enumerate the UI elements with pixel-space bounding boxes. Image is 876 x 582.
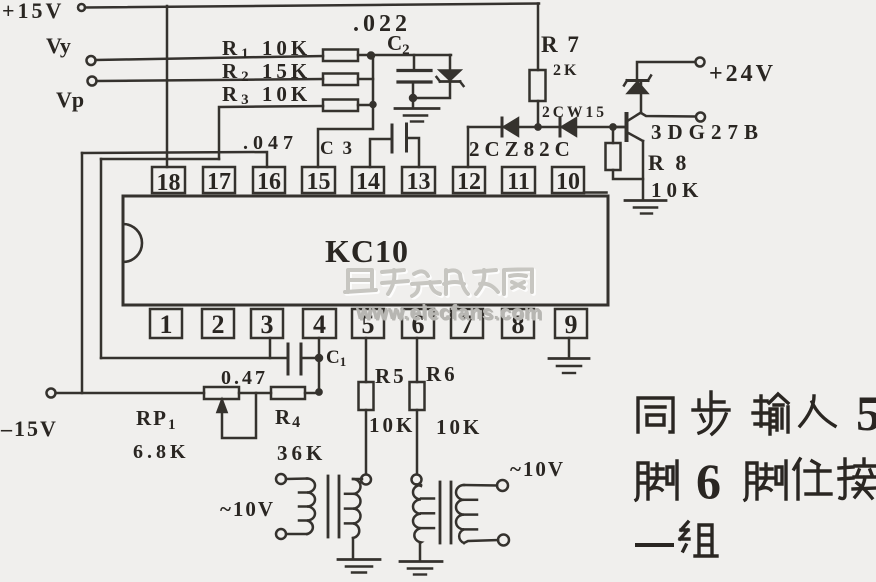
svg-text:15: 15 xyxy=(307,169,331,195)
wire R3 left lead down xyxy=(219,106,323,159)
ground below C2 xyxy=(395,109,439,122)
char ren xyxy=(794,459,831,499)
wire Vp to R2 xyxy=(97,79,324,81)
char bu xyxy=(693,392,729,434)
wire collector to output terminal xyxy=(641,113,695,117)
wire pin 12 riser xyxy=(467,127,470,167)
char zu xyxy=(680,522,717,556)
capacitor C1 xyxy=(288,344,322,374)
diode 2CW15 xyxy=(560,118,576,136)
pin 16 xyxy=(253,167,285,193)
RP1 wiper arrow xyxy=(218,393,257,438)
svg-text:16: 16 xyxy=(257,169,281,195)
char jiao 2 xyxy=(745,461,786,500)
wire Vy to R1 xyxy=(96,56,324,60)
svg-text:–15V: –15V xyxy=(0,416,58,441)
svg-text:R4: R4 xyxy=(275,405,302,431)
diode at collector xyxy=(624,76,651,94)
wire R5 to T1 secondary xyxy=(361,475,371,485)
svg-text:10K: 10K xyxy=(436,415,482,439)
pin numbers bottom xyxy=(160,310,578,339)
pin 8 xyxy=(502,309,534,338)
transformer T1 secondary winding xyxy=(345,479,362,559)
transformer T1 primary terminal top xyxy=(276,474,286,484)
pin 3 xyxy=(251,309,283,338)
op-amp IC KC10 body xyxy=(123,196,608,305)
pin 7 xyxy=(451,309,483,338)
svg-text:3: 3 xyxy=(261,310,274,339)
svg-text:13: 13 xyxy=(407,169,431,195)
svg-text:1: 1 xyxy=(160,310,173,339)
svg-text:18: 18 xyxy=(157,170,181,196)
transformer T2 secondary terminal top xyxy=(497,480,508,491)
svg-text:~10V: ~10V xyxy=(220,497,275,521)
ground T2 primary xyxy=(400,562,442,575)
watermark url xyxy=(355,302,544,326)
transformer T2 core xyxy=(440,482,451,543)
resistor R5 xyxy=(359,382,374,474)
char ru xyxy=(800,396,835,426)
svg-text:+15V: +15V xyxy=(2,0,64,23)
pin 6 xyxy=(402,309,434,338)
pin 10 xyxy=(552,167,584,193)
char jie xyxy=(839,459,876,499)
node A junction dot xyxy=(368,53,374,59)
resistor R4 xyxy=(271,387,319,399)
transformer T2 primary terminal xyxy=(412,475,422,485)
wire -15V to pin 16 xyxy=(82,152,267,393)
pin 11 xyxy=(502,167,535,193)
svg-text:2: 2 xyxy=(212,310,225,339)
svg-text:0.47: 0.47 xyxy=(221,367,268,389)
resistor R7 xyxy=(530,4,546,130)
svg-text:+24V: +24V xyxy=(709,61,776,87)
svg-text:14: 14 xyxy=(356,169,380,195)
wire to +24V xyxy=(637,62,695,80)
wire pin 3 horizontal xyxy=(101,338,288,358)
svg-text:36K: 36K xyxy=(277,441,326,465)
svg-text:KC10: KC10 xyxy=(325,233,409,269)
svg-text:10: 10 xyxy=(556,169,580,195)
wire bus node A to pin 15 xyxy=(318,55,376,167)
annotation Chinese text xyxy=(636,385,876,556)
wire emitter down xyxy=(642,141,645,200)
junction dot C2 bottom xyxy=(410,95,416,101)
resistor R3 xyxy=(323,100,373,112)
transformer T1 primary terminal bottom xyxy=(276,529,286,539)
pin 12 xyxy=(453,167,485,193)
char tong xyxy=(638,398,673,432)
ground T1 secondary xyxy=(338,560,380,573)
wire -15V to RP1 xyxy=(56,392,205,395)
pin 13 xyxy=(402,167,435,193)
wire diode row xyxy=(468,126,626,129)
svg-text:9: 9 xyxy=(565,310,578,339)
wire pin 4 down to R4 xyxy=(316,338,321,395)
zener diode beside C2 xyxy=(415,55,464,98)
digit 6 annotation xyxy=(696,453,721,509)
svg-text:6: 6 xyxy=(696,453,721,509)
wire collector up xyxy=(640,81,643,113)
wire pin 5 to R5 xyxy=(365,338,368,382)
svg-text:4: 4 xyxy=(313,310,326,339)
transformer T2 secondary terminal bottom xyxy=(498,535,509,546)
wire +15V rail xyxy=(85,4,539,8)
svg-text:~10V: ~10V xyxy=(510,457,565,481)
terminal Vy xyxy=(87,56,96,65)
resistor R1 xyxy=(323,50,368,62)
svg-text:R6: R6 xyxy=(426,362,458,386)
transistor Q1 3DG27B xyxy=(614,113,643,142)
pin 9 xyxy=(555,309,587,338)
svg-text:C 3: C 3 xyxy=(320,138,354,159)
diode 2CZ82C xyxy=(502,118,518,136)
wire +15V to pin 18 xyxy=(166,6,169,167)
transformer T1 core xyxy=(328,476,339,537)
char yi xyxy=(637,543,672,547)
potentiometer RP1 xyxy=(204,387,271,399)
IC notch xyxy=(123,224,142,262)
svg-text:www.elecfans.com: www.elecfans.com xyxy=(355,302,542,324)
transformer T2 secondary winding xyxy=(456,485,498,543)
svg-text:Vy: Vy xyxy=(46,33,71,58)
svg-text:C1: C1 xyxy=(326,347,346,369)
terminal +15V xyxy=(78,4,85,11)
terminal collector output xyxy=(696,113,705,122)
terminal Vp xyxy=(88,77,97,86)
resistor R2 xyxy=(323,74,373,86)
terminal +24V xyxy=(696,58,705,67)
pin 17 xyxy=(203,167,235,193)
svg-text:.047: .047 xyxy=(243,132,298,154)
svg-text:10K: 10K xyxy=(369,413,415,437)
svg-text:RP1: RP1 xyxy=(136,406,178,433)
resistor R6 xyxy=(410,382,425,474)
ground emitter xyxy=(625,201,666,214)
svg-text:.022: .022 xyxy=(353,11,411,37)
svg-text:6.8K: 6.8K xyxy=(133,441,190,463)
svg-text:17: 17 xyxy=(207,169,231,195)
transformer T1 primary winding xyxy=(286,479,315,535)
svg-text:R 7: R 7 xyxy=(541,32,581,57)
ground pin 9 xyxy=(549,359,589,374)
char jiao 1 xyxy=(636,461,677,500)
pin 18 xyxy=(152,167,185,193)
pin 4 xyxy=(303,309,336,338)
transformer T2 primary winding xyxy=(413,485,434,562)
svg-text:2CZ82C: 2CZ82C xyxy=(469,137,575,161)
resistor R8 xyxy=(606,124,644,179)
svg-text:10K: 10K xyxy=(651,178,703,202)
digit 5 annotation xyxy=(856,385,876,441)
char shu xyxy=(753,394,788,434)
pin 1 xyxy=(150,309,182,338)
svg-text:2K: 2K xyxy=(553,62,579,79)
svg-text:R3 10K: R3 10K xyxy=(222,82,311,108)
wire node A to C2 and zener xyxy=(371,54,451,57)
svg-text:5: 5 xyxy=(856,385,876,441)
svg-text:2CW15: 2CW15 xyxy=(542,104,607,121)
pin 5 xyxy=(352,309,384,338)
wire pin 10 stub xyxy=(584,191,607,194)
svg-text:Vp: Vp xyxy=(56,87,84,112)
wire R3 to pin 3 riser xyxy=(101,159,219,358)
pin 2 xyxy=(202,309,234,338)
pin 15 xyxy=(302,167,335,193)
wire pin 9 to ground xyxy=(568,338,571,358)
terminal -15V xyxy=(47,389,56,398)
svg-text:12: 12 xyxy=(457,169,481,195)
pin numbers top xyxy=(157,169,581,196)
svg-text:R5: R5 xyxy=(375,364,407,388)
capacitor C2 xyxy=(398,55,431,108)
svg-text:R 8: R 8 xyxy=(648,150,689,175)
svg-text:11: 11 xyxy=(507,169,530,195)
pin 14 xyxy=(352,167,384,193)
watermark logo text xyxy=(345,269,534,298)
svg-text:3DG27B: 3DG27B xyxy=(651,120,764,144)
capacitor C3 bridge pins 14-13 xyxy=(370,124,419,167)
wire pin 6 to R6 xyxy=(416,338,419,382)
